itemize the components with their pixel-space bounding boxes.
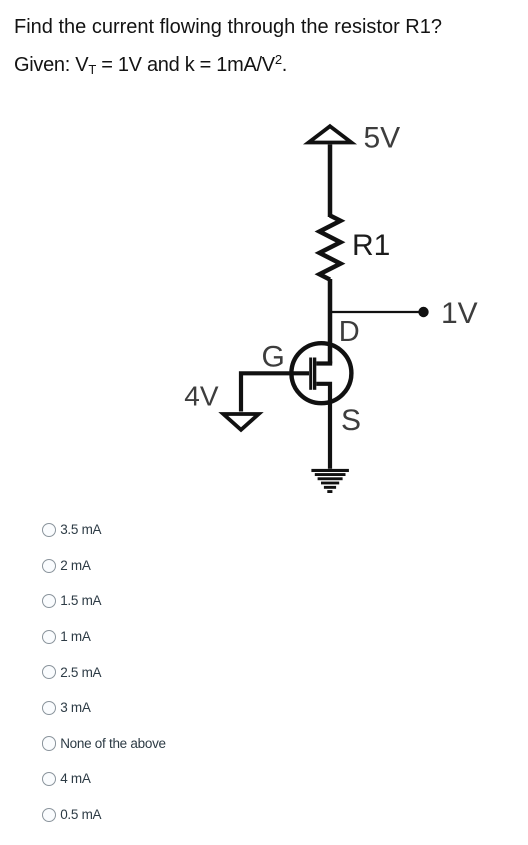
svg-text:5V: 5V	[364, 122, 401, 155]
svg-text:G: G	[262, 341, 285, 374]
question line 1	[14, 17, 442, 37]
wire resistor to drain	[328, 279, 333, 364]
svg-text:D: D	[339, 316, 360, 348]
transistor Q1 MOSFET body circle	[291, 343, 351, 403]
ground	[311, 469, 349, 493]
question line 2	[14, 55, 287, 75]
transistor Q1 source lead	[316, 384, 330, 469]
svg-text:R1: R1	[352, 229, 390, 262]
power supply 5V symbol	[309, 126, 352, 142]
resistor R1	[320, 216, 341, 280]
svg-text:4V: 4V	[184, 381, 219, 412]
transistor Q1 gate bar	[309, 358, 312, 390]
circuit schematic	[0, 0, 528, 510]
answer options	[0, 530, 528, 532]
svg-text:1V: 1V	[441, 297, 478, 330]
transistor Q1 drain lead	[316, 361, 332, 365]
node 1V terminal dot	[418, 307, 428, 317]
wire supply to resistor	[328, 145, 333, 218]
node wire to 1V terminal	[331, 311, 419, 313]
gate wire	[241, 373, 309, 411]
svg-text:S: S	[341, 404, 361, 437]
4V source arrow	[223, 414, 258, 430]
